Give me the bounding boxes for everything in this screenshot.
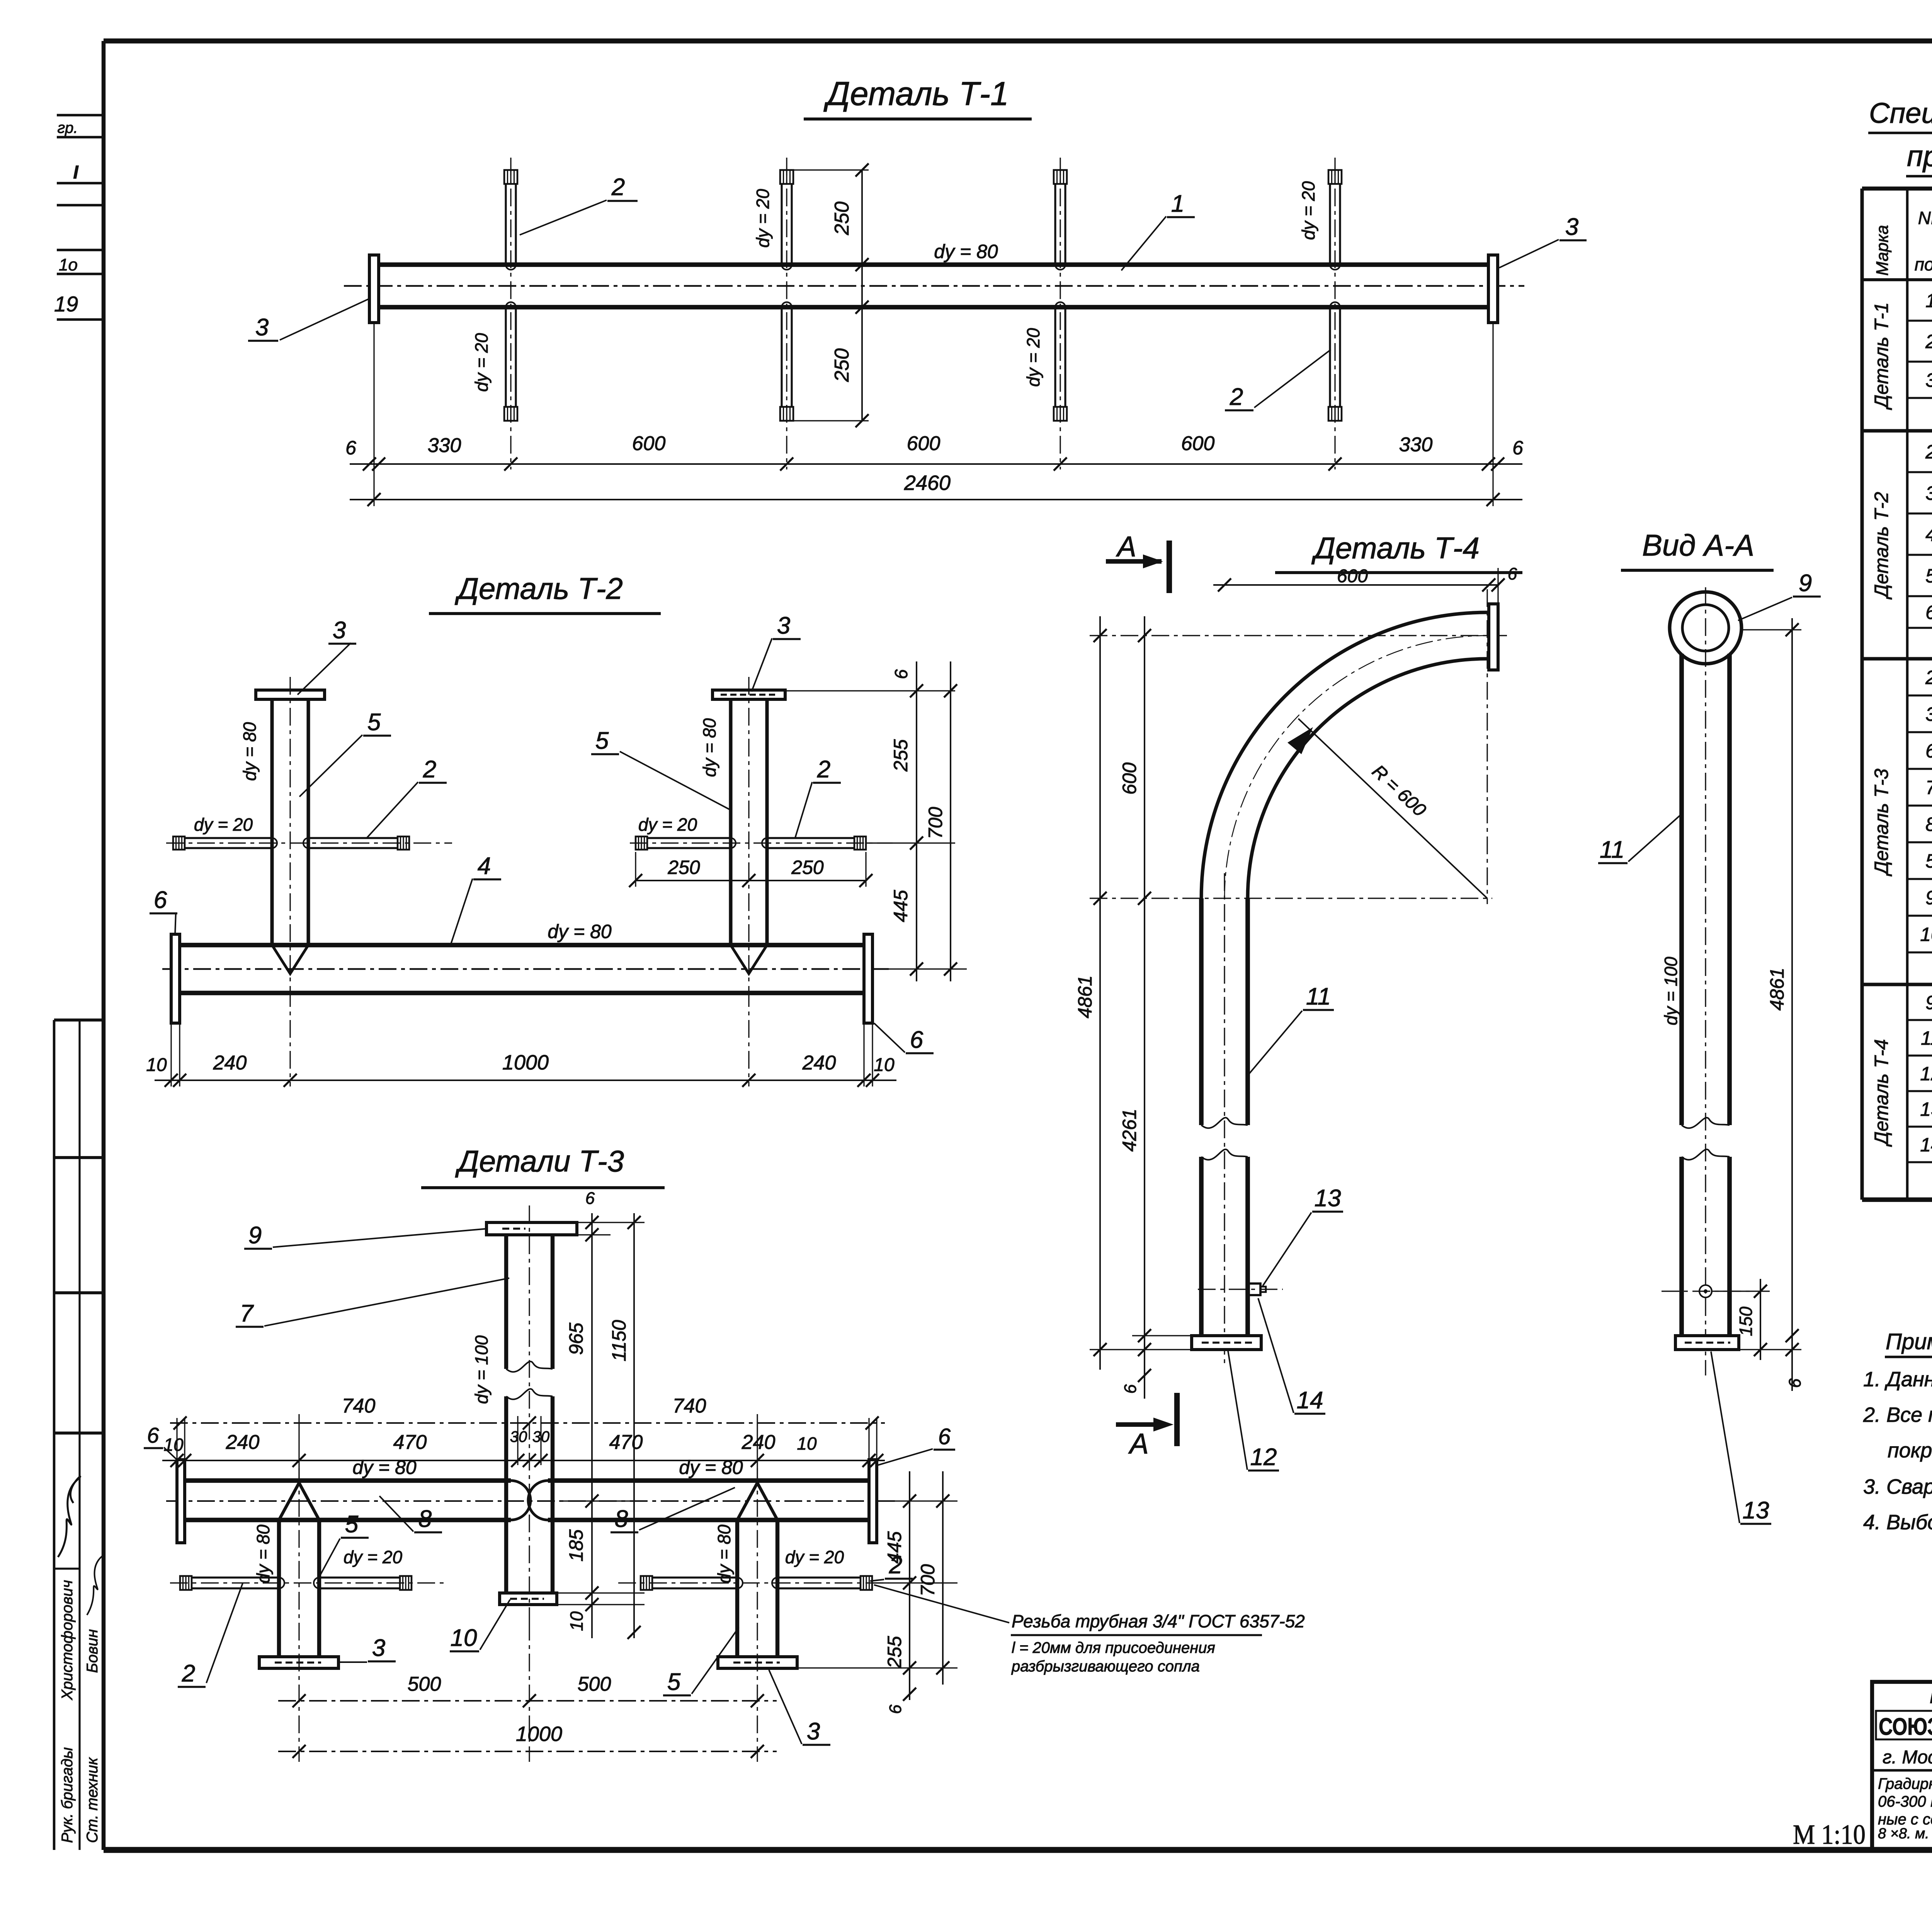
T-2 riser top flange (item 3) at x=751 <box>256 690 325 699</box>
svg-text:2: 2 <box>1925 667 1932 689</box>
T-3 right branches centerline <box>618 1582 889 1583</box>
svg-text:330: 330 <box>428 434 461 457</box>
T-3 top dimension row 740,740 <box>170 1422 885 1424</box>
T-3 left end flange (item 6) <box>177 1460 185 1543</box>
svg-text:3. Сварку производить элект: 3. Сварку производить электродами типа Э… <box>1863 1475 1932 1498</box>
svg-text:6: 6 <box>585 1189 595 1208</box>
svg-text:9: 9 <box>1799 570 1812 597</box>
T-3 central pipe top flange (item 9) <box>486 1222 577 1235</box>
svg-text:6: 6 <box>154 887 167 913</box>
svg-text:8 ×8. м. со стальным: 8 ×8. м. со стальным <box>1878 1826 1932 1842</box>
svg-text:2: 2 <box>1925 331 1932 352</box>
svg-text:240: 240 <box>226 1431 260 1454</box>
T-3 riser bottom flange (item 3) at x=1960 <box>718 1657 797 1668</box>
svg-text:4861: 4861 <box>1766 967 1788 1010</box>
T-3 central vertical dimensions 6,965,1150,185,10 <box>577 1222 645 1223</box>
T-3 right vertical dimensions 445,255,6 <box>877 1500 957 1501</box>
svg-text:2: 2 <box>423 756 436 783</box>
svg-text:6: 6 <box>147 1423 159 1447</box>
svg-text:150: 150 <box>1736 1306 1756 1336</box>
svg-text:I: I <box>73 162 79 183</box>
svg-text:250: 250 <box>831 202 853 236</box>
T-4 pipe vertical run (item 11, dy=100) <box>1199 898 1204 1125</box>
svg-text:покрыты антикорро зионным: покрыты антикорро зионным покрытием (аль… <box>1888 1439 1932 1462</box>
T-2 right riser left branch dy=20 (item 2) <box>647 837 731 839</box>
svg-text:3: 3 <box>333 617 346 644</box>
svg-text:12: 12 <box>1250 1444 1277 1471</box>
T-4 coupling and plug (items 13,14) <box>1248 1284 1260 1295</box>
T-3 thread note leader <box>874 1585 1009 1623</box>
T-3 main pipe centerline <box>166 1500 896 1502</box>
svg-text:10: 10 <box>163 1435 184 1455</box>
svg-text:5: 5 <box>667 1669 681 1695</box>
svg-text:2: 2 <box>182 1660 195 1687</box>
svg-text:А: А <box>1128 1428 1148 1460</box>
svg-text:Вид А-А: Вид А-А <box>1642 528 1754 562</box>
svg-text:dy = 20: dy = 20 <box>638 814 697 835</box>
table section lines <box>1862 429 1932 432</box>
T-1 branch pipe dy=20 at x=2036 <box>781 184 782 265</box>
left margin small stamp rows <box>57 114 104 117</box>
svg-text:9: 9 <box>248 1222 262 1249</box>
svg-text:5: 5 <box>1925 565 1932 587</box>
svg-text:3: 3 <box>1925 483 1932 504</box>
svg-text:Детали Т-3: Детали Т-3 <box>455 1144 624 1178</box>
svg-text:4: 4 <box>1925 524 1932 546</box>
svg-text:12: 12 <box>1920 1063 1932 1085</box>
svg-text:6: 6 <box>938 1424 951 1449</box>
svg-text:10: 10 <box>146 1055 167 1075</box>
svg-text:14: 14 <box>1297 1387 1323 1414</box>
svg-text:1: 1 <box>1925 290 1932 311</box>
svg-text:гр.: гр. <box>57 119 78 136</box>
T-3 left branches centerline <box>170 1582 444 1583</box>
svg-text:1: 1 <box>1171 190 1184 217</box>
svg-text:5: 5 <box>367 709 381 736</box>
T-4 pipe axis centerline <box>1224 873 1225 1364</box>
T-4 bottom flange (item 12) <box>1192 1336 1261 1350</box>
T-2 right riser flange hatch <box>721 694 777 695</box>
T-4 top dimension 600 <box>1213 584 1499 586</box>
T-1 branch centerline at x=1322 <box>510 158 511 469</box>
view A-A pipe (item 11) <box>1679 654 1684 1125</box>
svg-text:Деталь Т-3: Деталь Т-3 <box>1871 768 1892 876</box>
svg-text:3: 3 <box>1925 704 1932 725</box>
svg-text:255: 255 <box>890 739 912 772</box>
T-1 branch centerline at x=2744 <box>1060 158 1061 469</box>
svg-text:Резьба трубная 3/4" ГОСТ 6357-: Резьба трубная 3/4" ГОСТ 6357-52 <box>1012 1611 1305 1631</box>
svg-text:dy = 20: dy = 20 <box>344 1547 403 1567</box>
T-1 pipe centerline <box>344 285 1524 287</box>
view A-A flange ring (item 9) <box>1670 592 1742 664</box>
T-3 down riser dy=80 (item 5) at x=774 <box>277 1520 281 1657</box>
svg-text:СОЮЗВОДОКАНАЛПРОЕКТ: СОЮЗВОДОКАНАЛПРОЕКТ <box>1879 1714 1932 1740</box>
svg-text:9: 9 <box>1925 887 1932 909</box>
svg-text:dy = 20: dy = 20 <box>1023 328 1043 387</box>
svg-text:8: 8 <box>418 1506 432 1532</box>
svg-text:10: 10 <box>1920 924 1932 945</box>
T-3 bottom dimension 1000 <box>278 1751 777 1752</box>
svg-text:8: 8 <box>1925 814 1932 835</box>
svg-text:8: 8 <box>615 1506 628 1532</box>
T-3 right riser right branch dy=20 (item 2) <box>777 1576 861 1578</box>
svg-text:г. Москва: г. Москва <box>1883 1747 1932 1768</box>
svg-text:Госстрой СССР: Госстрой СССР <box>1930 1685 1932 1708</box>
svg-text:9: 9 <box>1925 992 1932 1013</box>
svg-text:dy = 20: dy = 20 <box>194 814 253 835</box>
T-3 riser centerline at x=1960 <box>757 1468 758 1762</box>
svg-text:разбрызгивающего сопла: разбрызгивающего сопла <box>1011 1658 1200 1675</box>
T-1 flange extension lines <box>373 323 374 506</box>
svg-text:10: 10 <box>874 1055 895 1075</box>
T-3 central pipe bottom cap flange (item 10) <box>500 1593 557 1605</box>
svg-text:6: 6 <box>1925 740 1932 762</box>
svg-text:Спецификация материалов на: Спецификация материалов на детали водора… <box>1869 97 1932 129</box>
svg-text:6: 6 <box>1925 602 1932 623</box>
svg-text:Примечания.: Примечания. <box>1886 1329 1932 1354</box>
T-3 central pipe centerline <box>529 1205 530 1623</box>
T-2 left end flange (item 6) <box>171 934 180 1023</box>
svg-text:поз.: поз. <box>1915 254 1932 274</box>
left margin signature squiggles <box>58 1477 80 1557</box>
svg-text:600: 600 <box>1337 566 1368 587</box>
svg-text:2: 2 <box>817 756 830 783</box>
svg-text:330: 330 <box>1399 434 1433 456</box>
svg-text:700: 700 <box>925 807 946 839</box>
T-3 central pipe (item 7, dy=100) <box>504 1235 508 1369</box>
T-2 riser centerline at x=751 <box>289 677 291 989</box>
svg-text:6: 6 <box>1512 437 1523 459</box>
svg-text:4261: 4261 <box>1119 1108 1140 1151</box>
title block outer box <box>1872 1682 1932 1850</box>
svg-text:7: 7 <box>240 1300 254 1327</box>
svg-text:3: 3 <box>777 612 790 639</box>
svg-text:Деталь Т-4: Деталь Т-4 <box>1871 1039 1892 1147</box>
T-3 right vertical dimension 700 <box>942 1471 944 1685</box>
svg-text:740: 740 <box>673 1395 706 1417</box>
svg-text:06-300 N 12.5 пленочные и к: 06-300 N 12.5 пленочные и капель- <box>1878 1793 1932 1810</box>
svg-text:5: 5 <box>1925 850 1932 872</box>
svg-text:2460: 2460 <box>904 471 951 495</box>
svg-text:1000: 1000 <box>516 1722 562 1746</box>
T-3 riser bottom flange (item 3) at x=774 <box>259 1657 338 1668</box>
svg-text:3: 3 <box>1565 214 1578 240</box>
T-3 dimension extension lines <box>176 1418 177 1460</box>
T-4 left vertical dimensions 4861,600,4261,6 <box>1099 616 1101 1370</box>
T-3 down riser dy=80 (item 5) at x=1960 <box>735 1520 739 1657</box>
svg-text:6: 6 <box>1121 1384 1140 1394</box>
T-3 left riser right branch dy=20 (item 2) <box>319 1576 400 1578</box>
svg-text:13: 13 <box>1743 1497 1769 1524</box>
svg-text:6: 6 <box>1786 1378 1804 1388</box>
svg-text:740: 740 <box>342 1395 376 1417</box>
T-2 right branches centerline <box>630 842 893 843</box>
svg-text:Деталь Т-1: Деталь Т-1 <box>823 75 1009 112</box>
svg-text:3: 3 <box>372 1635 385 1661</box>
svg-text:2: 2 <box>1230 384 1243 410</box>
svg-text:250: 250 <box>667 857 700 878</box>
svg-text:dy = 80: dy = 80 <box>699 718 719 777</box>
svg-text:dy = 80: dy = 80 <box>934 241 998 262</box>
svg-text:4: 4 <box>478 853 491 879</box>
T-3 right end flange (item 6) <box>869 1460 877 1543</box>
T-4 bend center construction lines <box>1090 898 1492 899</box>
T-3 main pipe right segment (item 8, dy=80) <box>548 1478 869 1483</box>
svg-text:500: 500 <box>408 1673 441 1695</box>
table outer and header lines <box>1862 187 1932 190</box>
view A-A pipe break symbol <box>1682 1118 1730 1128</box>
svg-text:14: 14 <box>1920 1134 1932 1156</box>
svg-text:7: 7 <box>1925 777 1932 799</box>
svg-text:11: 11 <box>1921 1027 1932 1049</box>
T-2 right vertical dimension 700 <box>950 661 951 981</box>
svg-text:Деталь Т-2: Деталь Т-2 <box>1871 492 1892 600</box>
svg-text:2: 2 <box>1925 441 1932 463</box>
svg-text:3: 3 <box>807 1718 820 1745</box>
svg-text:1000: 1000 <box>502 1051 549 1074</box>
T-1 branch centerline at x=3455 <box>1334 158 1335 469</box>
table row and column lines per section <box>1907 320 1932 321</box>
svg-text:600: 600 <box>632 432 666 455</box>
T-2 main pipe (item 4, dy=80) <box>179 943 864 947</box>
svg-text:dy = 20: dy = 20 <box>785 1547 844 1567</box>
svg-text:dy = 80: dy = 80 <box>714 1525 734 1584</box>
svg-text:Рук. бригады: Рук. бригады <box>59 1747 76 1843</box>
view A-A plug (item 13) <box>1699 1285 1712 1297</box>
T-2 riser pipe dy=80 (item 5) at x=751 <box>270 699 274 945</box>
T-3 left riser left branch dy=20 (item 2) <box>192 1576 279 1578</box>
T-2 right end flange (item 6) <box>864 934 872 1023</box>
T-3 dimension row 10,240,470,30,30,470,240,10 <box>162 1460 885 1461</box>
view A-A dimension 150 <box>1712 1290 1770 1292</box>
svg-text:NN: NN <box>1918 208 1932 228</box>
T-3 bottom dimensions 500,500 <box>278 1700 777 1702</box>
T-2 left branches centerline <box>166 842 452 843</box>
svg-text:240: 240 <box>742 1431 776 1454</box>
svg-text:Ст. техник: Ст. техник <box>84 1757 101 1843</box>
svg-text:6: 6 <box>891 669 911 679</box>
svg-text:пределительной системы гради: пределительной системы градирни <box>1907 140 1932 173</box>
T-4 pipe bend R=600 <box>1201 612 1487 898</box>
view A-A centerline <box>1705 587 1706 1375</box>
svg-text:Деталь Т-1: Деталь Т-1 <box>1871 302 1892 410</box>
svg-text:10: 10 <box>797 1433 817 1454</box>
T-1 overall dimension 2460 <box>350 499 1522 500</box>
svg-text:13: 13 <box>1315 1185 1341 1212</box>
svg-text:470: 470 <box>393 1431 427 1454</box>
svg-text:1150: 1150 <box>608 1320 630 1362</box>
svg-text:30: 30 <box>510 1428 527 1445</box>
svg-text:2: 2 <box>611 174 625 201</box>
svg-text:4. Выборку деталей смотрите: 4. Выборку деталей смотрите лист В-4 аль… <box>1863 1511 1932 1534</box>
svg-text:1о: 1о <box>59 255 78 274</box>
svg-text:240: 240 <box>213 1052 247 1074</box>
svg-text:3: 3 <box>255 314 269 341</box>
svg-text:700: 700 <box>917 1564 939 1596</box>
svg-text:dy = 80: dy = 80 <box>548 921 612 942</box>
svg-text:М 1:10: М 1:10 <box>1793 1819 1866 1850</box>
svg-text:Деталь Т-2: Деталь Т-2 <box>454 571 623 605</box>
svg-text:13: 13 <box>1920 1098 1932 1120</box>
svg-text:600: 600 <box>1119 762 1140 795</box>
svg-text:Градирни с вентиляторами: Градирни с вентиляторами <box>1878 1775 1932 1792</box>
svg-text:dy = 20: dy = 20 <box>1298 181 1318 240</box>
svg-text:6: 6 <box>1508 564 1517 583</box>
svg-text:250: 250 <box>791 857 824 878</box>
svg-text:10: 10 <box>451 1625 477 1651</box>
svg-text:Христофорович: Христофорович <box>59 1580 76 1700</box>
T-2 left riser left branch dy=20 (item 2) <box>185 837 272 839</box>
svg-text:Марка: Марка <box>1873 225 1892 275</box>
T-1 branch pipe dy=20 at x=3455 <box>1329 184 1331 265</box>
svg-text:600: 600 <box>907 432 940 455</box>
svg-text:2: 2 <box>889 1552 902 1579</box>
svg-text:185: 185 <box>565 1529 587 1562</box>
T-4 pipe break symbol <box>1201 1118 1248 1128</box>
svg-text:3: 3 <box>1925 369 1932 391</box>
view A-A bottom flange (item 12) <box>1675 1336 1739 1350</box>
T-2 right riser right branch dy=20 (item 2) <box>767 837 854 839</box>
svg-text:10: 10 <box>566 1611 587 1631</box>
svg-text:470: 470 <box>609 1431 643 1454</box>
T-1 right flange (item 3) <box>1488 255 1498 323</box>
T-3 riser centerline at x=774 <box>298 1468 299 1762</box>
svg-text:dy = 100: dy = 100 <box>1661 957 1681 1025</box>
svg-text:445: 445 <box>890 890 912 922</box>
svg-text:5: 5 <box>345 1511 359 1538</box>
svg-text:500: 500 <box>578 1673 611 1695</box>
T-2 riser centerline at x=1938 <box>748 677 749 989</box>
T-2 pipe centerline <box>162 968 889 970</box>
svg-text:240: 240 <box>802 1052 836 1074</box>
svg-text:11: 11 <box>1306 983 1331 1010</box>
T-3 main pipe left segment (item 8, dy=80) <box>185 1478 511 1483</box>
svg-text:4861: 4861 <box>1074 975 1096 1018</box>
T-3 central pipe break symbol <box>506 1362 553 1372</box>
svg-text:11: 11 <box>1600 836 1624 863</box>
T-1 branch pipe dy=20 at x=1322 <box>505 184 507 265</box>
T-4 radius R=600 <box>1298 719 1487 898</box>
T-1 branch centerline at x=2036 <box>786 158 787 469</box>
svg-text:dy = 100: dy = 100 <box>471 1335 492 1404</box>
svg-text:255: 255 <box>884 1636 905 1669</box>
svg-text:dy = 20: dy = 20 <box>471 333 492 392</box>
svg-text:А: А <box>1116 530 1136 563</box>
T-2 bottom dimensions 10,240,1000,240,10 <box>170 1024 172 1086</box>
svg-text:dy = 80: dy = 80 <box>253 1525 273 1584</box>
T-2 riser top flange (item 3) at x=1938 <box>713 690 785 699</box>
T-2 right vertical dimensions 6,255,445 <box>785 690 955 691</box>
svg-text:965: 965 <box>565 1323 587 1355</box>
view A-A dimension 4861 <box>1743 629 1801 630</box>
T-1 left flange (item 3) <box>369 255 379 323</box>
T-2 250 dimensions under right branches <box>636 880 866 881</box>
svg-text:6: 6 <box>910 1027 923 1053</box>
svg-text:2. Все трубы водораспределит: 2. Все трубы водораспределительной систе… <box>1863 1403 1932 1426</box>
T-1 branch pipe dy=20 at x=2744 <box>1054 184 1056 265</box>
svg-text:5: 5 <box>595 728 609 754</box>
T-1 250 vertical dimension <box>861 170 863 421</box>
T-2 left riser right branch dy=20 (item 2) <box>308 837 398 839</box>
svg-text:dy = 20: dy = 20 <box>753 189 773 248</box>
svg-text:6: 6 <box>345 437 356 459</box>
frame border <box>104 39 1932 44</box>
T-4 top flange (item 9) <box>1489 604 1498 670</box>
T-2 riser pipe dy=80 (item 5) at x=1938 <box>729 699 732 945</box>
T-1 main pipe (item 1, dy=80) <box>379 262 1488 267</box>
T-3 right riser left branch dy=20 (item 2) <box>652 1576 737 1578</box>
svg-text:dy = 80: dy = 80 <box>240 722 260 781</box>
svg-text:l = 20мм для присоединения: l = 20мм для присоединения <box>1012 1639 1215 1656</box>
view A-A dimension 6 <box>1786 1329 1799 1342</box>
svg-text:1. Данный лист смотрите сов: 1. Данный лист смотрите совместно с лист… <box>1863 1368 1932 1391</box>
svg-text:250: 250 <box>831 349 853 383</box>
svg-text:6: 6 <box>886 1704 905 1714</box>
svg-text:600: 600 <box>1181 432 1215 455</box>
T-1 dimension row (6,330,600,600,600,330,6) <box>350 463 1522 465</box>
svg-text:Бовин: Бовин <box>84 1629 101 1673</box>
svg-text:Деталь Т-4: Деталь Т-4 <box>1311 531 1480 565</box>
svg-text:19: 19 <box>54 292 78 316</box>
left margin stamp table <box>53 1020 56 1850</box>
